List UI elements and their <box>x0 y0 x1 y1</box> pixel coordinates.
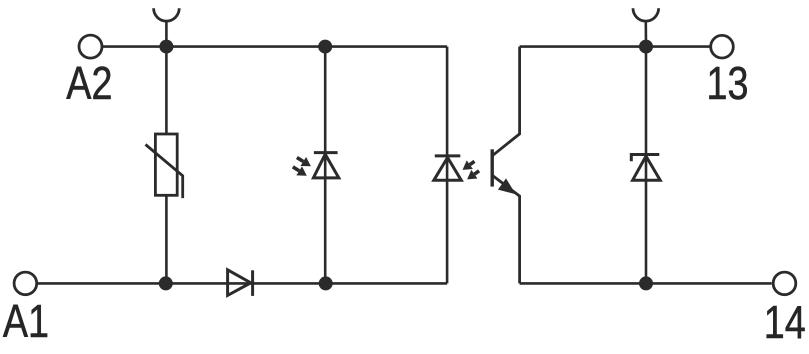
Z-diode on output <box>631 155 660 181</box>
wire: Z-diode branch vertical <box>645 47 648 284</box>
test fork socket symbol above node A2 <box>154 8 180 46</box>
optocoupler light arrow 1 <box>463 160 475 170</box>
junction dot output bottom rail <box>639 276 653 290</box>
label 14 <box>764 296 806 347</box>
terminal circle 13 <box>711 35 734 58</box>
LED indicator diode <box>313 153 338 178</box>
base bar <box>491 149 494 186</box>
wire: output bottom rail (emitter corner to terminal 14) <box>520 282 772 285</box>
terminal circle A1 <box>14 272 37 295</box>
terminal circle A2 <box>79 35 102 58</box>
wire: LED indicator branch vertical <box>324 47 327 284</box>
junction dot top rail at varistor branch <box>159 40 173 54</box>
LED indicator light arrow 2 <box>293 166 307 175</box>
optocoupler phototransistor <box>492 47 519 284</box>
wire: top input rail A2 to corner <box>103 45 448 48</box>
label 13 <box>707 57 749 108</box>
svg-text:A2: A2 <box>66 57 112 108</box>
wire: varistor branch vertical <box>165 47 168 284</box>
label A2 <box>66 57 112 108</box>
LED indicator light arrow 1 <box>297 157 311 166</box>
series diode on bottom rail <box>228 270 253 296</box>
wire: left block right side vertical (opto LED branch) <box>446 47 449 284</box>
emitter lead <box>492 175 519 283</box>
test fork socket symbol above node 13 <box>633 8 659 46</box>
wire: bottom input rail A1 <box>38 282 447 285</box>
junction dot bottom rail at LED branch <box>319 276 333 290</box>
optocoupler light arrow 2 <box>467 170 479 180</box>
junction dot top rail at LED branch <box>318 40 332 54</box>
svg-text:14: 14 <box>764 296 806 347</box>
collector lead <box>492 47 519 156</box>
emitter arrowhead <box>498 178 516 194</box>
junction dot bottom rail at varistor branch <box>159 276 173 290</box>
varistor RU body <box>146 134 183 198</box>
label A1 <box>3 295 49 346</box>
junction dot output top rail <box>639 40 653 54</box>
svg-text:13: 13 <box>707 57 749 108</box>
wire: output top rail (collector to terminal 13) <box>520 45 710 48</box>
svg-text:A1: A1 <box>3 295 49 346</box>
terminal circle 14 <box>773 272 796 295</box>
optocoupler LED <box>434 156 462 180</box>
